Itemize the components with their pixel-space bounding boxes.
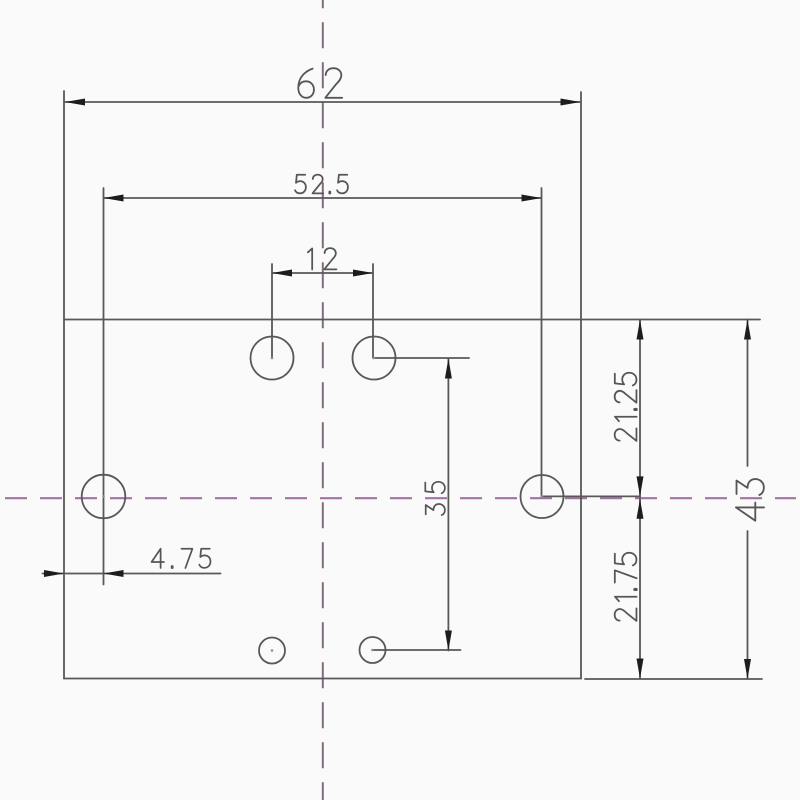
extension line x=373 (12 dim to hole center) [372,264,374,358]
arrow 21.25 top [637,320,644,340]
arrow 52.5 left [104,195,124,202]
arrow 12 left [272,270,292,277]
text 35 (rotated) [425,482,445,515]
text 21.75 (rotated) [615,553,637,621]
dimension line 4.75 [43,573,221,575]
arrow 21.25 bottom [637,476,644,496]
arrow 62 left [65,99,85,106]
bottom extension line for 21.75 and 43 [585,678,762,680]
centerline vertical [322,0,324,800]
arrowheads [44,99,751,680]
arrow 4.75 left (outside pointing right) [44,570,64,577]
hole mid-right [521,475,564,518]
dimension line 35 [447,359,449,651]
connector hole center to 35 dim bottom [373,649,461,651]
hole bottom-right [360,637,386,663]
extension line x=541.5 (52.5 dim to hole center) [541,188,543,497]
dimension line 21.25 / 21.75 [639,320,641,679]
arrow 12 right [353,270,373,277]
dimension line 52.5 [104,197,542,199]
text 62 [298,68,342,98]
dimension line 62 [65,101,581,103]
arrow 35 bottom [445,631,452,651]
connector hole center to 21.25 dim [542,495,640,497]
plate left edge + 62 extension line [63,91,65,679]
arrow 35 top [445,359,452,379]
plate top edge + right dims extension [64,319,760,321]
hole top-right [353,337,396,380]
text 12 [308,248,337,269]
extension line x=272 (12 dim to hole center) [271,264,273,358]
arrow 43 bottom [744,659,751,679]
hole top-left [251,337,294,380]
arrow 21.75 bottom [637,659,644,679]
plate right edge + 62 extension line [580,92,582,679]
text 52.5 [295,175,348,194]
arrow 21.75 top [637,499,644,519]
dimension line 43 upper part [747,320,749,467]
dimension line 43 lower part [747,531,749,679]
arrow 62 right [561,99,581,106]
text 43 (rotated) [736,479,764,521]
arrow 43 top [744,320,751,340]
centerline horizontal [5,497,796,499]
text 21.25 (rotated) [615,373,637,441]
hole mid-left [82,475,126,519]
plate bottom edge [64,678,581,680]
arrow 4.75 right (outside pointing left) [104,570,124,577]
extension line x=103.5 (52.5 dim to hole center) [103,188,105,585]
dimension line 12 [272,272,373,274]
hole center dots [102,357,543,652]
arrow 52.5 right [522,195,542,202]
connector hole center to 35 dim top [374,357,469,359]
hole bottom-left [259,638,285,664]
text 4.75 [152,549,211,568]
